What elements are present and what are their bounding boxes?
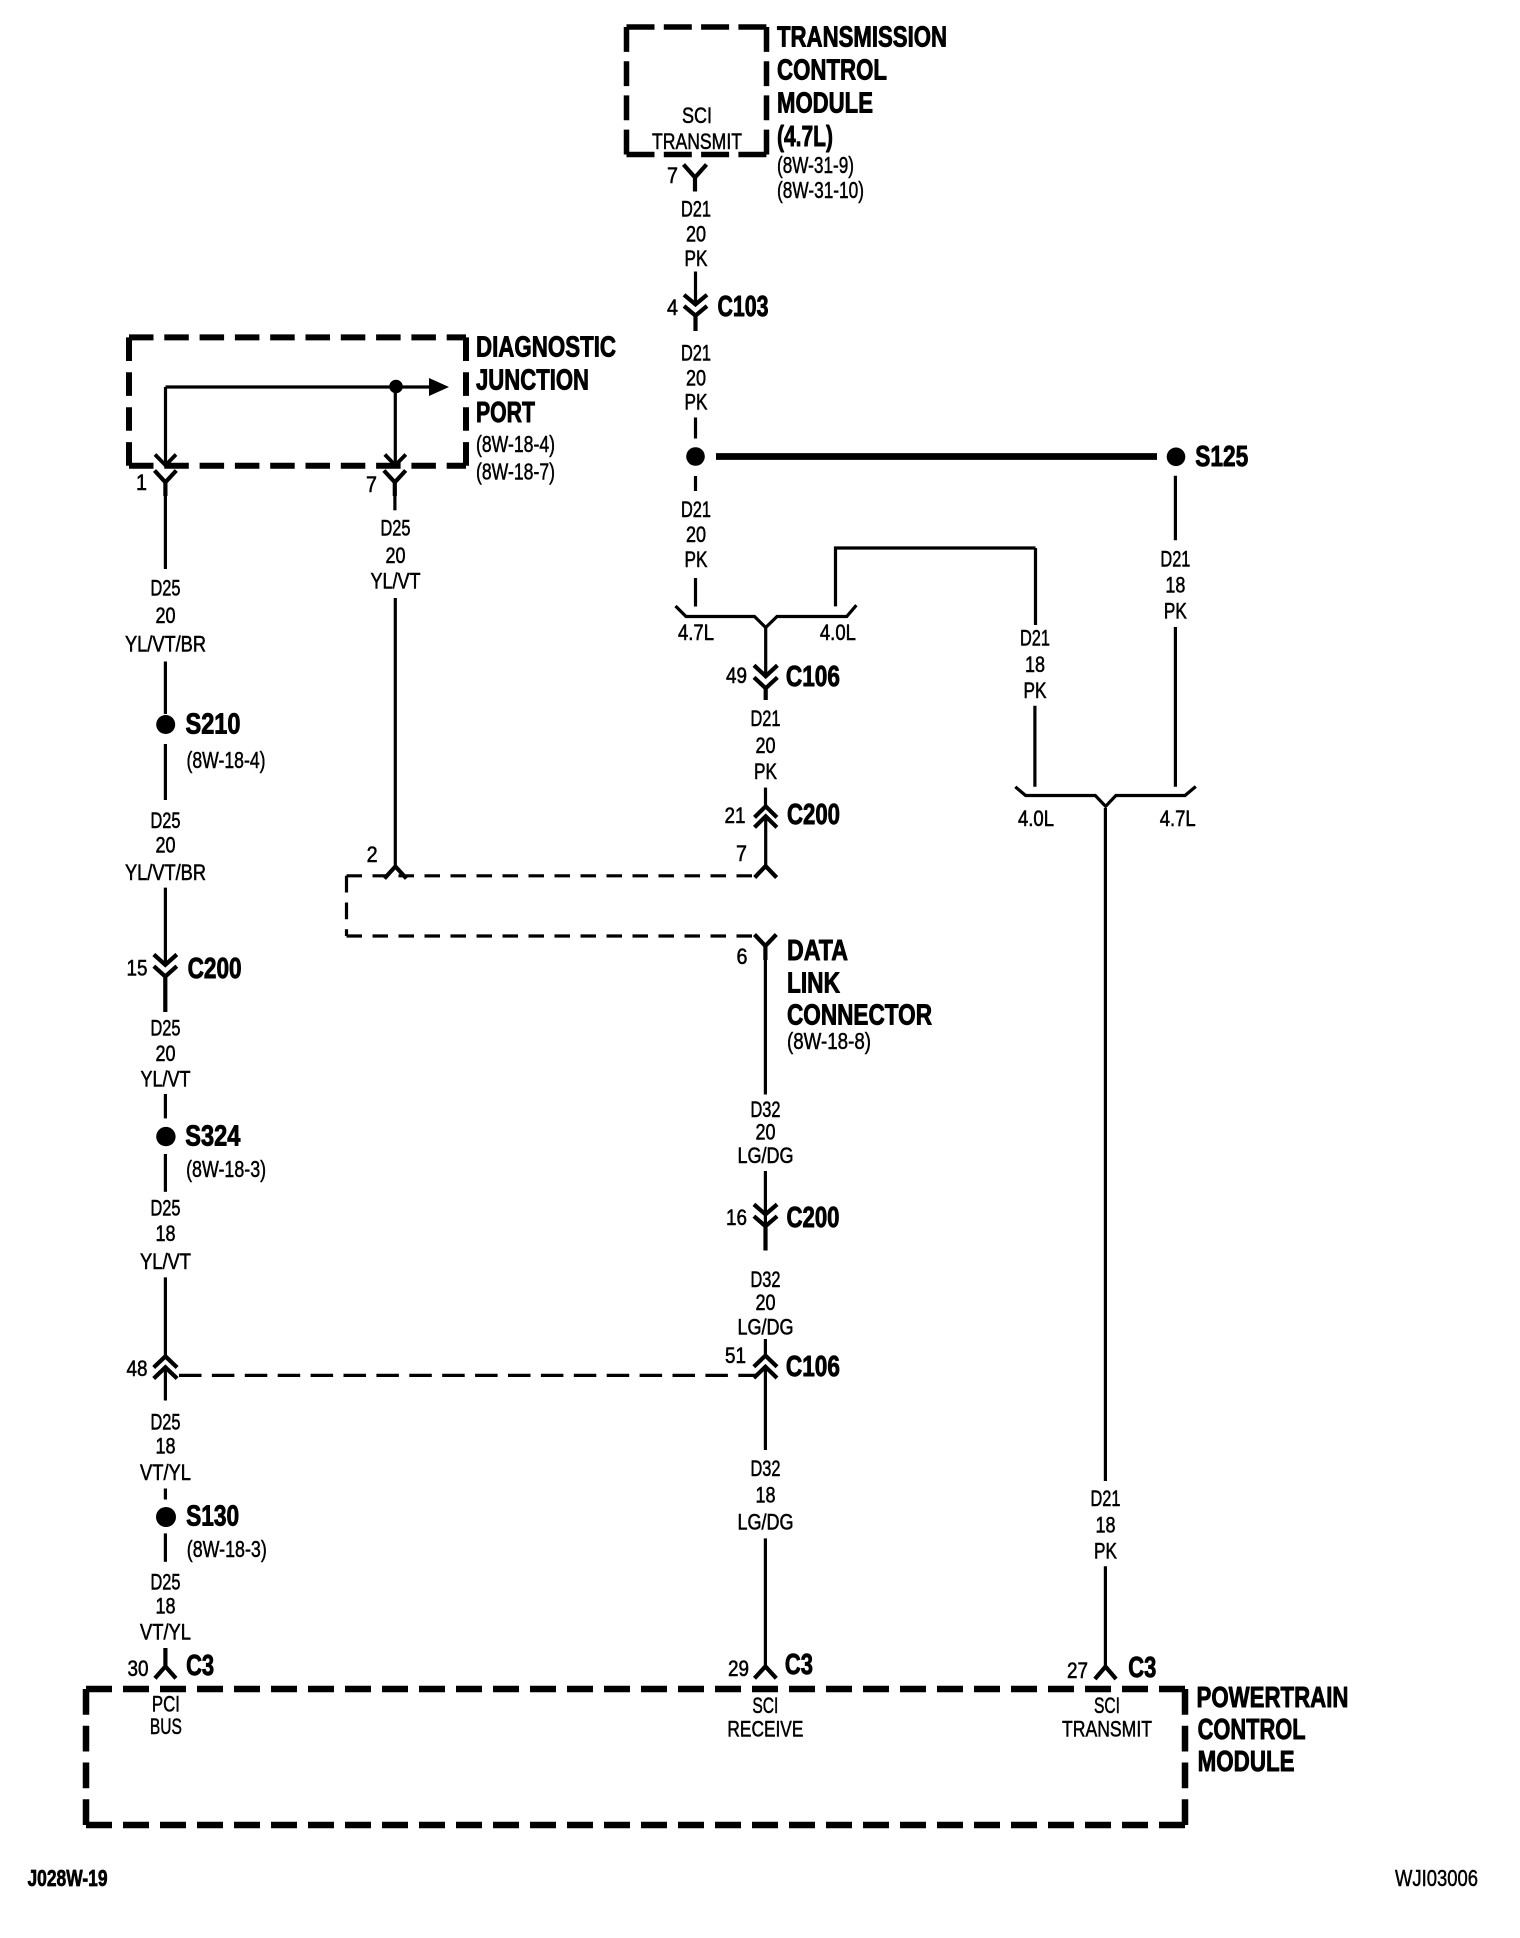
PCM pin 30 C3 [128,1648,215,1682]
svg-text:S130: S130 [186,1501,239,1533]
bracket merge 4.7L/4.0L (top) [676,605,857,675]
svg-text:YL/VT: YL/VT [371,569,421,594]
splice S130 [156,1501,267,1563]
PCM name label [1197,1682,1349,1778]
svg-text:JUNCTION: JUNCTION [476,365,589,397]
svg-text:PK: PK [754,759,777,784]
PCM pin 27 C3 [1067,1652,1156,1684]
svg-text:LG/DG: LG/DG [738,1315,794,1340]
splice S324 [156,1121,266,1183]
svg-text:VT/YL: VT/YL [140,1620,191,1645]
wire D32 18 LG/DG (C106 to PCM pin29) [738,1456,794,1666]
diagnostic junction port box [129,337,466,465]
svg-text:C200: C200 [787,1202,840,1234]
svg-text:(8W-18-3): (8W-18-3) [186,1156,266,1182]
DLC name label [787,935,932,1054]
wire D21 18 PK (4.0L branch) [1020,626,1050,787]
svg-text:DIAGNOSTIC: DIAGNOSTIC [476,332,616,364]
svg-text:LG/DG: LG/DG [738,1510,794,1535]
svg-text:D21: D21 [1020,626,1050,651]
PCM pin label SCI TRANSMIT [1062,1693,1152,1742]
svg-text:C200: C200 [188,953,242,985]
svg-text:PK: PK [685,246,708,271]
svg-text:PK: PK [1024,678,1047,703]
svg-text:D32: D32 [751,1267,781,1292]
wire D32 20 LG/DG (C200 to C106) [738,1267,794,1356]
svg-text:2: 2 [367,842,378,867]
svg-text:PK: PK [685,547,708,572]
svg-text:PCI: PCI [152,1692,180,1717]
svg-text:21: 21 [725,803,746,828]
svg-text:7: 7 [736,841,747,866]
svg-text:C103: C103 [718,291,769,323]
svg-text:S210: S210 [186,709,241,741]
svg-text:18: 18 [1165,573,1185,598]
svg-text:16: 16 [726,1205,747,1230]
svg-text:YL/VT/BR: YL/VT/BR [125,860,206,885]
svg-text:D25: D25 [151,1196,181,1221]
svg-text:(8W-18-4): (8W-18-4) [476,431,555,457]
DJP pin 7 [366,471,406,498]
svg-text:48: 48 [127,1356,148,1381]
svg-text:YL/VT: YL/VT [141,1067,191,1092]
svg-text:18: 18 [156,1434,176,1459]
svg-text:TRANSMIT: TRANSMIT [1062,1717,1152,1742]
svg-text:4.0L: 4.0L [820,620,856,645]
svg-text:15: 15 [127,956,148,981]
svg-text:D25: D25 [151,1570,181,1595]
svg-text:D25: D25 [381,516,411,541]
TCM name label [777,22,947,204]
wire D25 20 YL/VT/BR (S210 to C200) [125,744,206,964]
svg-text:(4.7L): (4.7L) [777,121,833,153]
svg-text:20: 20 [686,366,706,391]
svg-text:20: 20 [756,733,776,758]
svg-text:PK: PK [1094,1539,1117,1564]
svg-text:4: 4 [667,295,678,320]
svg-text:(8W-18-4): (8W-18-4) [187,747,266,773]
svg-text:18: 18 [1096,1513,1116,1538]
svg-text:MODULE: MODULE [777,88,873,120]
svg-text:C106: C106 [786,661,840,693]
svg-text:20: 20 [756,1290,776,1315]
svg-text:TRANSMIT: TRANSMIT [652,129,742,154]
svg-text:20: 20 [156,603,176,628]
pin 7 into diagnostic junction port pigtail [736,841,777,878]
svg-text:D21: D21 [1091,1486,1121,1511]
svg-text:20: 20 [156,1041,176,1066]
svg-text:D21: D21 [681,341,711,366]
connector C106 pin 49 [726,661,840,700]
PCM pin label PCI BUS [150,1692,182,1740]
DJP internal arrowhead right [385,455,406,466]
connector C200 pin 16 [726,1202,840,1251]
splice S125 [1167,441,1249,473]
svg-text:1: 1 [136,470,147,495]
junction dot at S125 bus [686,447,705,466]
svg-text:20: 20 [386,543,406,568]
svg-text:PK: PK [1164,599,1187,624]
pin 2 into DJP pigtail [367,842,407,879]
svg-text:YL/VT/BR: YL/VT/BR [125,632,206,657]
svg-text:18: 18 [756,1483,776,1508]
svg-text:D25: D25 [151,808,181,833]
svg-text:SCI: SCI [1094,1693,1120,1718]
svg-text:30: 30 [128,1656,149,1681]
wire D25 20 YL/VT/BR (DJP-1 to S210) [125,496,206,714]
svg-text:4.0L: 4.0L [1018,806,1054,831]
wire 4.0L elbow branch [836,548,1036,625]
svg-text:RECEIVE: RECEIVE [727,1717,803,1742]
svg-text:CONTROL: CONTROL [777,55,887,87]
svg-text:D25: D25 [151,576,181,601]
svg-text:MODULE: MODULE [1198,1746,1295,1778]
svg-text:7: 7 [366,472,377,497]
svg-text:7: 7 [667,163,678,188]
wire D32 20 LG/DG (DLC to C200) [738,960,794,1226]
bracket merge 4.0L/4.7L (bottom) [1015,787,1196,832]
TCM pin label SCI TRANSMIT [652,103,742,154]
data link connector pin 6 [737,935,777,970]
wire D21 20 PK (splice to 4.7L bracket) [681,476,711,607]
svg-text:D32: D32 [751,1097,781,1122]
svg-text:18: 18 [1025,652,1045,677]
svg-text:D25: D25 [151,1410,181,1435]
DJP name label [476,332,616,485]
svg-text:4.7L: 4.7L [1160,806,1196,831]
svg-text:20: 20 [686,222,706,247]
connector C103 pin 4 [667,291,769,331]
svg-text:LINK: LINK [787,968,840,1000]
svg-text:DATA: DATA [787,935,848,967]
svg-text:(8W-31-9): (8W-31-9) [777,152,854,178]
svg-text:(8W-18-3): (8W-18-3) [187,1536,267,1562]
DJP internal junction dot [389,380,403,394]
svg-text:BUS: BUS [150,1714,182,1739]
svg-text:20: 20 [156,833,176,858]
svg-text:LG/DG: LG/DG [738,1143,794,1168]
svg-text:S324: S324 [185,1121,240,1153]
PCM pin label SCI RECEIVE [727,1693,803,1742]
svg-text:D25: D25 [151,1016,181,1041]
svg-text:VT/YL: VT/YL [140,1460,191,1485]
svg-text:C3: C3 [186,1650,214,1682]
svg-text:29: 29 [728,1656,749,1681]
svg-text:49: 49 [726,663,747,688]
DJP pin 1 [136,470,176,496]
svg-text:D32: D32 [751,1456,781,1481]
svg-text:C200: C200 [787,799,840,831]
splice S210 [156,709,265,774]
svg-text:J028W-19: J028W-19 [28,1865,108,1891]
svg-text:YL/VT: YL/VT [140,1249,191,1274]
svg-text:SCI: SCI [752,1693,778,1718]
svg-text:C3: C3 [1128,1652,1156,1684]
svg-text:PORT: PORT [476,397,535,429]
dashed wire C106-48 to C106-51 [179,1374,756,1377]
TCM pin 7 [667,163,707,192]
wire D25 18 VT/YL (S130 to PCM pin30) [140,1533,191,1644]
DJP internal arrowhead left [155,455,176,466]
svg-text:6: 6 [737,944,748,969]
svg-text:20: 20 [686,522,706,547]
svg-text:SCI: SCI [682,103,712,128]
svg-text:D21: D21 [681,497,711,522]
powertrain control module box [86,1689,1185,1825]
svg-text:D21: D21 [1160,547,1190,572]
DJP internal bus wire with arrow [166,378,450,465]
svg-text:TRANSMISSION: TRANSMISSION [777,22,947,54]
connector C200 pin 15 [127,953,242,1012]
DJP pigtail dashed wire (pin2/pin7 to DLC pin6) [347,876,756,936]
wire D21 20 PK (C106 to C200) [751,706,781,806]
wire D25 20 YL/VT (DJP-7 down) [371,496,421,867]
svg-text:(8W-31-10): (8W-31-10) [777,177,864,203]
connector C200 pin 21 [725,799,841,866]
connector C106 pin 51 [725,1343,840,1450]
svg-text:4.7L: 4.7L [678,620,714,645]
svg-text:S125: S125 [1195,441,1248,473]
svg-text:D21: D21 [681,197,711,222]
wire D21 20 PK (TCM to C103) [681,197,711,304]
svg-text:(8W-18-8): (8W-18-8) [787,1028,871,1054]
svg-text:27: 27 [1067,1658,1088,1683]
svg-text:20: 20 [756,1120,776,1145]
wire D21 18 PK (bracket to PCM pin27) [1091,808,1121,1666]
svg-text:POWERTRAIN: POWERTRAIN [1197,1682,1349,1714]
wire D25 18 VT/YL (C106 to S130) [140,1410,191,1500]
svg-text:C106: C106 [786,1351,840,1383]
wire D25 20 YL/VT (C200 to S324) [141,1016,191,1119]
svg-text:WJI03006: WJI03006 [1395,1865,1478,1891]
wire D21 18 PK (S125 down) [1160,476,1190,787]
svg-text:PK: PK [685,390,708,415]
connector C106 pin 48 [127,1356,178,1401]
svg-text:CONNECTOR: CONNECTOR [787,1000,932,1032]
svg-text:51: 51 [725,1343,746,1368]
svg-text:CONTROL: CONTROL [1198,1714,1306,1746]
transmission control module box [627,27,767,155]
svg-text:18: 18 [156,1221,176,1246]
PCM pin 29 C3 [728,1649,813,1681]
svg-text:C3: C3 [785,1649,813,1681]
wire D21 20 PK (C103 to splice) [681,341,711,439]
svg-text:(8W-18-7): (8W-18-7) [476,459,555,485]
wire D25 18 YL/VT (S324 to C106-48) [140,1154,191,1356]
svg-text:18: 18 [156,1594,176,1619]
wire bus to S125 [716,453,1157,460]
svg-text:D21: D21 [751,706,781,731]
